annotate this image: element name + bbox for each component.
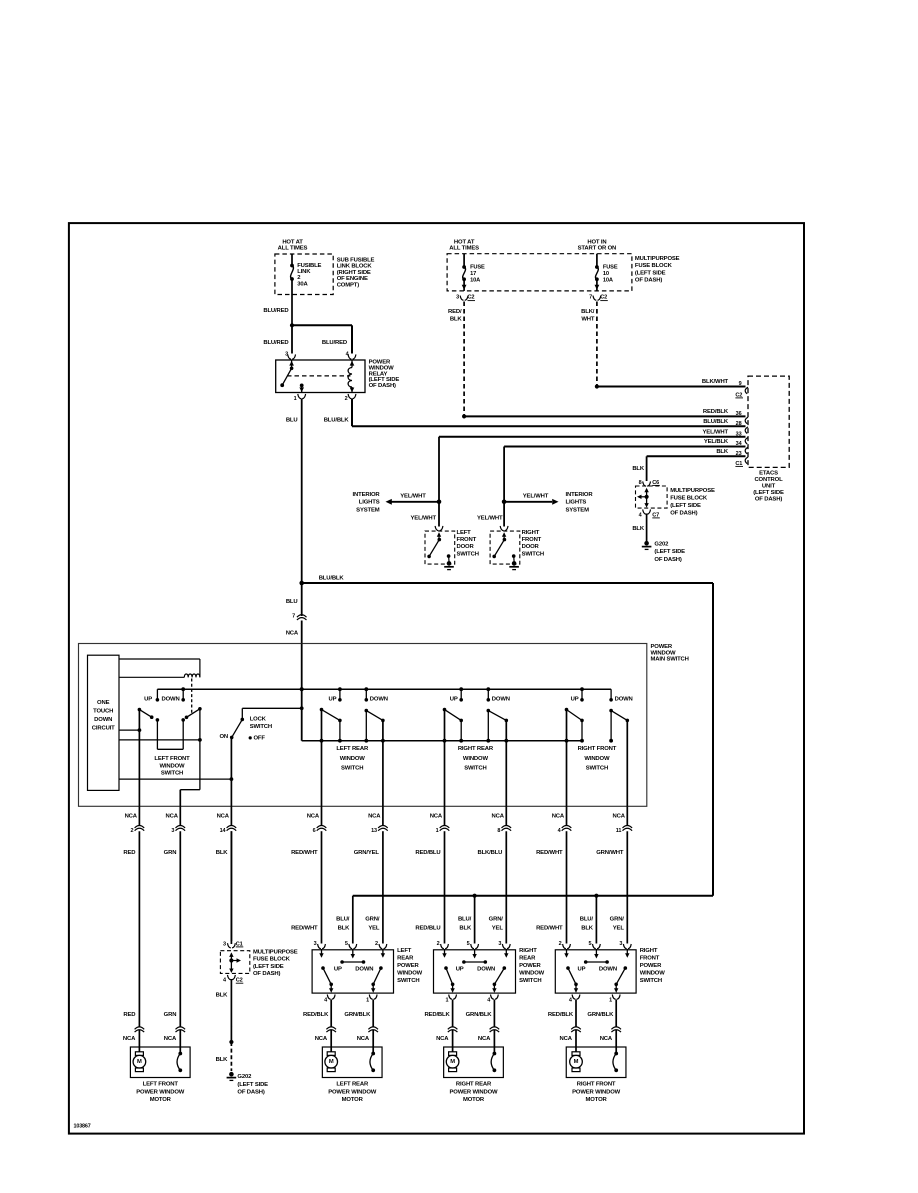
svg-text:3: 3 — [314, 941, 317, 947]
svg-text:DOWN: DOWN — [370, 696, 388, 702]
svg-text:17: 17 — [470, 271, 476, 277]
svg-text:BLK: BLK — [632, 526, 645, 532]
svg-text:BLU/: BLU/ — [336, 917, 350, 923]
svg-text:POWER WINDOW: POWER WINDOW — [450, 1089, 499, 1095]
svg-text:ETACS: ETACS — [759, 470, 778, 476]
svg-text:HOT AT: HOT AT — [282, 239, 303, 245]
svg-text:BLK: BLK — [459, 925, 472, 931]
svg-text:SWITCH: SWITCH — [341, 766, 363, 772]
svg-text:BLK: BLK — [216, 1057, 229, 1063]
svg-text:2: 2 — [375, 941, 378, 947]
svg-text:LEFT: LEFT — [457, 530, 472, 536]
svg-text:POWER: POWER — [640, 963, 662, 969]
svg-text:SWITCH: SWITCH — [161, 771, 183, 777]
svg-text:10: 10 — [603, 271, 609, 277]
svg-text:103867: 103867 — [74, 1123, 91, 1129]
svg-text:RED/WHT: RED/WHT — [291, 850, 318, 856]
svg-text:RED: RED — [123, 1012, 135, 1018]
svg-text:CIRCUIT: CIRCUIT — [92, 725, 115, 731]
svg-text:33: 33 — [736, 431, 742, 437]
svg-text:NCA: NCA — [307, 813, 320, 819]
svg-text:INTERIOR: INTERIOR — [353, 492, 381, 498]
svg-text:OF DASH): OF DASH) — [755, 496, 782, 502]
svg-text:DOWN: DOWN — [94, 717, 112, 723]
svg-text:UP: UP — [334, 966, 342, 972]
svg-text:BLU/BLK: BLU/BLK — [324, 417, 350, 423]
svg-text:LEFT: LEFT — [397, 948, 412, 954]
svg-text:YEL/BLK: YEL/BLK — [704, 439, 729, 445]
svg-text:WINDOW: WINDOW — [584, 756, 610, 762]
svg-text:SWITCH: SWITCH — [519, 978, 541, 984]
svg-text:TOUCH: TOUCH — [93, 709, 113, 715]
svg-text:UP: UP — [329, 696, 337, 702]
svg-text:FRONT: FRONT — [522, 537, 542, 543]
svg-text:NCA: NCA — [436, 1036, 449, 1042]
svg-text:1: 1 — [436, 828, 439, 834]
svg-text:RIGHT FRONT: RIGHT FRONT — [577, 1082, 616, 1088]
svg-text:GRN/WHT: GRN/WHT — [596, 850, 624, 856]
svg-text:BLU/: BLU/ — [580, 917, 594, 923]
svg-text:BLK: BLK — [338, 925, 351, 931]
svg-text:M: M — [329, 1059, 334, 1065]
svg-text:SWITCH: SWITCH — [640, 978, 662, 984]
svg-text:POWER: POWER — [651, 644, 673, 650]
svg-text:RED: RED — [123, 850, 135, 856]
svg-text:C1: C1 — [735, 461, 742, 467]
svg-text:YEL: YEL — [492, 925, 504, 931]
svg-text:FUSE: FUSE — [603, 264, 618, 270]
svg-text:GRN/YEL: GRN/YEL — [354, 850, 380, 856]
svg-text:NCA: NCA — [165, 813, 178, 819]
svg-text:OF DASH): OF DASH) — [670, 511, 697, 517]
svg-text:LOCK: LOCK — [250, 716, 267, 722]
svg-text:NCA: NCA — [430, 813, 443, 819]
svg-text:30A: 30A — [297, 281, 308, 287]
svg-text:GRN/BLK: GRN/BLK — [344, 1012, 371, 1018]
svg-text:(LEFT SIDE: (LEFT SIDE — [253, 964, 284, 970]
svg-text:UP: UP — [144, 696, 152, 702]
svg-text:START OR ON: START OR ON — [578, 246, 617, 252]
svg-text:RED/BLU: RED/BLU — [415, 850, 440, 856]
svg-text:DOWN: DOWN — [599, 966, 617, 972]
svg-text:NCA: NCA — [612, 813, 625, 819]
svg-text:5: 5 — [588, 941, 591, 947]
svg-text:MULTIPURPOSE: MULTIPURPOSE — [635, 256, 680, 262]
svg-text:FUSE BLOCK: FUSE BLOCK — [635, 263, 673, 269]
svg-text:BLK: BLK — [716, 449, 729, 455]
svg-text:ONE: ONE — [97, 700, 110, 706]
svg-text:C1: C1 — [236, 941, 243, 947]
svg-text:WHT: WHT — [581, 317, 595, 323]
svg-text:DOWN: DOWN — [492, 696, 510, 702]
svg-text:(LEFT SIDE: (LEFT SIDE — [635, 271, 666, 277]
svg-text:FRONT: FRONT — [457, 537, 477, 543]
svg-text:MULTIPURPOSE: MULTIPURPOSE — [670, 488, 715, 494]
svg-text:DOWN: DOWN — [615, 696, 633, 702]
svg-text:NCA: NCA — [491, 813, 504, 819]
svg-text:DOWN: DOWN — [162, 696, 180, 702]
svg-text:ALL TIMES: ALL TIMES — [278, 246, 308, 252]
svg-text:6: 6 — [313, 828, 316, 834]
svg-text:GRN: GRN — [164, 850, 177, 856]
svg-text:LIGHTS: LIGHTS — [359, 500, 380, 506]
svg-text:NCA: NCA — [478, 1036, 491, 1042]
svg-text:ON: ON — [219, 734, 228, 740]
svg-text:GRN/: GRN/ — [489, 917, 504, 923]
svg-text:UP: UP — [456, 966, 464, 972]
svg-text:NCA: NCA — [164, 1036, 177, 1042]
svg-text:SWITCH: SWITCH — [457, 551, 479, 557]
svg-text:YEL/WHT: YEL/WHT — [411, 516, 437, 522]
svg-text:LEFT REAR: LEFT REAR — [336, 746, 369, 752]
svg-text:MOTOR: MOTOR — [342, 1097, 364, 1103]
svg-text:DOOR: DOOR — [522, 544, 540, 550]
svg-text:C2: C2 — [468, 295, 475, 301]
svg-text:1: 1 — [294, 396, 297, 402]
svg-text:WINDOW: WINDOW — [340, 756, 366, 762]
svg-text:5: 5 — [467, 941, 470, 947]
svg-text:POWER WINDOW: POWER WINDOW — [136, 1089, 185, 1095]
svg-text:2: 2 — [130, 828, 133, 834]
svg-text:1: 1 — [366, 997, 369, 1003]
svg-text:RED/BLK: RED/BLK — [303, 1012, 329, 1018]
svg-text:ALL TIMES: ALL TIMES — [449, 246, 479, 252]
svg-text:POWER WINDOW: POWER WINDOW — [328, 1089, 377, 1095]
svg-text:GRN/BLK: GRN/BLK — [466, 1012, 493, 1018]
svg-text:OF DASH): OF DASH) — [253, 971, 280, 977]
svg-text:RED/WHT: RED/WHT — [291, 925, 318, 931]
svg-text:LEFT REAR: LEFT REAR — [336, 1082, 369, 1088]
svg-text:GRN/: GRN/ — [610, 917, 625, 923]
svg-text:COMPT): COMPT) — [337, 282, 360, 288]
svg-text:2: 2 — [437, 941, 440, 947]
svg-text:BLU/BLK: BLU/BLK — [319, 575, 345, 581]
svg-text:NCA: NCA — [600, 1036, 613, 1042]
svg-text:3: 3 — [456, 294, 459, 300]
svg-text:NCA: NCA — [559, 1036, 572, 1042]
svg-text:LEFT FRONT: LEFT FRONT — [143, 1082, 179, 1088]
svg-text:WINDOW: WINDOW — [640, 970, 666, 976]
svg-text:G202: G202 — [654, 541, 669, 547]
svg-text:RED/BLK: RED/BLK — [703, 409, 729, 415]
svg-text:RIGHT REAR: RIGHT REAR — [456, 1082, 492, 1088]
svg-text:WINDOW: WINDOW — [397, 970, 423, 976]
svg-text:POWER WINDOW: POWER WINDOW — [572, 1089, 621, 1095]
svg-text:RED/BLK: RED/BLK — [424, 1012, 450, 1018]
svg-text:BLK: BLK — [450, 317, 463, 323]
svg-text:2: 2 — [559, 941, 562, 947]
svg-text:M: M — [574, 1059, 579, 1065]
svg-text:BLU/RED: BLU/RED — [263, 340, 288, 346]
svg-text:BLK/WHT: BLK/WHT — [702, 379, 729, 385]
svg-text:BLK/: BLK/ — [581, 309, 595, 315]
svg-text:(LEFT SIDE: (LEFT SIDE — [237, 1082, 268, 1088]
svg-text:UNIT: UNIT — [762, 483, 776, 489]
svg-text:RIGHT: RIGHT — [522, 530, 540, 536]
svg-text:(LEFT SIDE: (LEFT SIDE — [654, 549, 685, 555]
svg-text:HOT AT: HOT AT — [454, 239, 475, 245]
svg-text:NCA: NCA — [286, 631, 299, 637]
svg-text:BLK: BLK — [216, 992, 229, 998]
svg-text:RED/WHT: RED/WHT — [536, 925, 563, 931]
svg-text:11: 11 — [616, 828, 622, 834]
svg-text:C2: C2 — [735, 392, 742, 398]
svg-text:OF DASH): OF DASH) — [237, 1090, 264, 1096]
svg-text:SWITCH: SWITCH — [464, 766, 486, 772]
svg-text:M: M — [450, 1059, 455, 1065]
svg-text:OFF: OFF — [254, 736, 266, 742]
svg-text:MAIN SWITCH: MAIN SWITCH — [651, 657, 689, 663]
svg-text:BLK: BLK — [581, 925, 594, 931]
svg-text:WINDOW: WINDOW — [519, 970, 545, 976]
svg-text:1: 1 — [445, 997, 448, 1003]
svg-text:OF DASH): OF DASH) — [654, 557, 681, 563]
svg-text:BLU/RED: BLU/RED — [322, 340, 347, 346]
svg-text:C2: C2 — [600, 295, 607, 301]
svg-text:SWITCH: SWITCH — [250, 724, 272, 730]
svg-text:36: 36 — [736, 411, 742, 417]
svg-text:RIGHT FRONT: RIGHT FRONT — [578, 746, 617, 752]
svg-text:MOTOR: MOTOR — [463, 1097, 485, 1103]
svg-text:7: 7 — [589, 294, 592, 300]
svg-text:8: 8 — [639, 480, 642, 486]
svg-text:13: 13 — [371, 828, 377, 834]
svg-text:NCA: NCA — [552, 813, 565, 819]
svg-text:C6: C6 — [652, 480, 659, 486]
svg-text:WINDOW: WINDOW — [463, 756, 489, 762]
svg-text:(LEFT SIDE: (LEFT SIDE — [670, 503, 701, 509]
svg-text:RED/BLK: RED/BLK — [548, 1012, 574, 1018]
svg-text:3: 3 — [619, 941, 622, 947]
svg-text:SWITCH: SWITCH — [397, 978, 419, 984]
svg-text:C2: C2 — [236, 978, 243, 984]
svg-text:GRN: GRN — [164, 1012, 177, 1018]
svg-text:UP: UP — [450, 696, 458, 702]
svg-text:YEL: YEL — [368, 925, 380, 931]
svg-text:RED/WHT: RED/WHT — [536, 850, 563, 856]
svg-text:9: 9 — [739, 381, 742, 387]
svg-text:5: 5 — [345, 941, 348, 947]
svg-text:FRONT: FRONT — [640, 956, 660, 962]
svg-text:SYSTEM: SYSTEM — [356, 507, 380, 513]
svg-text:NCA: NCA — [368, 813, 381, 819]
svg-text:FUSE BLOCK: FUSE BLOCK — [670, 496, 708, 502]
svg-text:YEL/WHT: YEL/WHT — [400, 494, 426, 500]
svg-text:BLU/RED: BLU/RED — [263, 308, 288, 314]
svg-text:M: M — [137, 1059, 142, 1065]
svg-text:SWITCH: SWITCH — [522, 551, 544, 557]
svg-text:NCA: NCA — [315, 1036, 328, 1042]
svg-text:WINDOW: WINDOW — [160, 763, 186, 769]
svg-text:LEFT FRONT: LEFT FRONT — [154, 756, 190, 762]
svg-text:OF ENGINE: OF ENGINE — [337, 276, 368, 282]
svg-text:NCA: NCA — [123, 1036, 136, 1042]
svg-text:BLU: BLU — [286, 599, 298, 605]
svg-text:GRN/BLK: GRN/BLK — [587, 1012, 614, 1018]
svg-text:RIGHT: RIGHT — [519, 948, 537, 954]
svg-text:POWER: POWER — [397, 963, 419, 969]
svg-text:3: 3 — [498, 941, 501, 947]
svg-text:FUSE: FUSE — [470, 264, 485, 270]
svg-text:POWER: POWER — [519, 963, 541, 969]
svg-text:MULTIPURPOSE: MULTIPURPOSE — [253, 949, 298, 955]
svg-text:MOTOR: MOTOR — [586, 1097, 608, 1103]
svg-text:YEL/WHT: YEL/WHT — [523, 494, 549, 500]
svg-text:DOOR: DOOR — [457, 544, 475, 550]
svg-text:DOWN: DOWN — [477, 966, 495, 972]
svg-text:DOWN: DOWN — [355, 966, 373, 972]
svg-text:LINK BLOCK: LINK BLOCK — [337, 264, 373, 270]
svg-text:C7: C7 — [652, 512, 659, 518]
svg-text:YEL/WHT: YEL/WHT — [477, 516, 503, 522]
svg-text:YEL/WHT: YEL/WHT — [703, 429, 729, 435]
svg-text:SWITCH: SWITCH — [586, 766, 608, 772]
svg-text:INTERIOR: INTERIOR — [566, 492, 594, 498]
svg-text:CONTROL: CONTROL — [754, 477, 783, 483]
svg-text:UP: UP — [578, 966, 586, 972]
svg-text:YEL: YEL — [613, 925, 625, 931]
svg-text:NCA: NCA — [357, 1036, 370, 1042]
svg-text:2: 2 — [345, 396, 348, 402]
svg-text:10A: 10A — [470, 278, 480, 284]
svg-text:3: 3 — [171, 828, 174, 834]
svg-text:8: 8 — [497, 828, 500, 834]
svg-text:WINDOW: WINDOW — [651, 650, 677, 656]
svg-text:23: 23 — [736, 451, 742, 457]
svg-text:28: 28 — [736, 421, 742, 427]
svg-text:RED/: RED/ — [448, 309, 462, 315]
svg-text:NCA: NCA — [125, 813, 138, 819]
svg-text:SYSTEM: SYSTEM — [566, 507, 590, 513]
svg-text:REAR: REAR — [519, 956, 536, 962]
svg-text:HOT IN: HOT IN — [587, 239, 606, 245]
svg-text:OF DASH): OF DASH) — [635, 278, 662, 284]
svg-text:UP: UP — [571, 696, 579, 702]
svg-text:FUSE BLOCK: FUSE BLOCK — [253, 957, 291, 963]
svg-text:LIGHTS: LIGHTS — [566, 500, 587, 506]
svg-text:G202: G202 — [237, 1074, 252, 1080]
svg-text:BLK: BLK — [216, 850, 229, 856]
svg-text:REAR: REAR — [397, 956, 414, 962]
svg-text:BLU/BLK: BLU/BLK — [703, 419, 729, 425]
svg-text:(RIGHT SIDE: (RIGHT SIDE — [337, 270, 371, 276]
svg-text:3: 3 — [223, 941, 226, 947]
svg-text:NCA: NCA — [217, 813, 230, 819]
svg-text:1: 1 — [609, 997, 612, 1003]
svg-text:RIGHT REAR: RIGHT REAR — [458, 746, 494, 752]
svg-text:7: 7 — [292, 614, 295, 620]
svg-text:RED/BLU: RED/BLU — [415, 925, 440, 931]
svg-text:BLK: BLK — [632, 466, 645, 472]
svg-text:MOTOR: MOTOR — [150, 1097, 172, 1103]
svg-text:OF DASH): OF DASH) — [369, 383, 396, 389]
svg-text:BLU/: BLU/ — [458, 917, 472, 923]
svg-text:BLK/BLU: BLK/BLU — [477, 850, 502, 856]
svg-text:RIGHT: RIGHT — [640, 948, 658, 954]
svg-text:GRN/: GRN/ — [365, 917, 380, 923]
svg-text:(LEFT SIDE: (LEFT SIDE — [753, 490, 784, 496]
svg-text:BLU: BLU — [286, 417, 298, 423]
svg-text:10A: 10A — [603, 278, 613, 284]
